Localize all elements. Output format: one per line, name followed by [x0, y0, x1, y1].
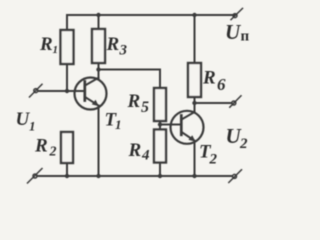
svg-text:1: 1 — [53, 44, 59, 56]
wire R1 bottom to base node — [66, 64, 68, 91]
label R5 — [127, 91, 150, 116]
wire collector node to R5 — [99, 70, 161, 89]
node rail / T2 emitter — [192, 174, 196, 178]
node R3 / T1 collector — [96, 67, 100, 71]
resistor R3 — [92, 29, 105, 63]
resistor R4 — [154, 130, 166, 163]
wire R6 bottom to collector node — [194, 97, 196, 103]
label Uп — [225, 20, 250, 45]
svg-text:R: R — [128, 140, 142, 161]
label R4 — [128, 140, 151, 164]
terminal common bottom-left — [28, 169, 43, 184]
svg-text:2: 2 — [239, 136, 248, 152]
terminal output lower — [229, 170, 242, 183]
transistor T2 — [171, 111, 204, 144]
label R2 — [34, 136, 57, 160]
svg-text:4: 4 — [141, 148, 150, 164]
wire R4 bottom to rail — [159, 163, 161, 177]
resistor R6 — [188, 63, 201, 97]
wire input to T1 base — [38, 90, 84, 92]
wire T1 collector up — [98, 70, 100, 79]
label U1 — [16, 109, 36, 134]
resistor R1 — [61, 30, 74, 64]
svg-text:5: 5 — [141, 99, 149, 116]
resistor R5 — [154, 88, 166, 121]
transistor T1 — [75, 78, 107, 110]
label R1 — [39, 34, 58, 56]
wire T2 collector up — [194, 103, 196, 112]
svg-text:R: R — [39, 34, 53, 55]
node rail / R4 — [158, 174, 162, 178]
label R3 — [106, 34, 128, 59]
node rail / R2 — [65, 174, 69, 178]
terminal input U1 — [30, 84, 43, 97]
svg-text:3: 3 — [119, 43, 128, 59]
svg-text:2: 2 — [49, 145, 57, 160]
node base junction — [65, 89, 69, 93]
label R6 — [202, 68, 226, 95]
label U2 — [226, 124, 249, 152]
svg-text:R: R — [34, 136, 48, 157]
wire node to T2 base — [160, 124, 181, 126]
label T2 — [199, 142, 218, 168]
svg-text:U: U — [225, 20, 242, 44]
terminal Uп (supply) — [231, 8, 243, 19]
svg-text:6: 6 — [217, 75, 226, 94]
wire R2 bottom to rail — [66, 163, 68, 176]
svg-text:R: R — [106, 34, 120, 55]
wire T2 emitter down — [194, 141, 196, 176]
wire rail to R6 top — [194, 15, 196, 63]
node top rail / R3 — [96, 13, 100, 17]
svg-text:п: п — [241, 29, 250, 45]
wire R5 bottom to R4 top — [159, 121, 161, 130]
svg-text:1: 1 — [29, 119, 36, 134]
wire output — [195, 102, 232, 104]
resistor R2 — [61, 132, 73, 163]
node top rail / R6 — [192, 13, 196, 17]
wire R3 bottom to collector node — [98, 63, 100, 70]
node rail / T1 emitter — [96, 174, 100, 178]
svg-text:2: 2 — [209, 152, 218, 168]
svg-text:1: 1 — [115, 117, 122, 132]
node R6 / T2 collector / output — [192, 101, 196, 105]
wire top supply rail — [67, 15, 234, 30]
svg-text:R: R — [127, 91, 141, 112]
wire bottom rail — [37, 175, 232, 177]
node R5/R4/base T2 — [158, 122, 162, 126]
terminal output upper — [230, 96, 241, 107]
svg-text:R: R — [202, 68, 216, 89]
wire R3 top to rail — [98, 15, 100, 29]
label T1 — [105, 110, 122, 133]
wire T1 emitter down — [98, 106, 100, 176]
